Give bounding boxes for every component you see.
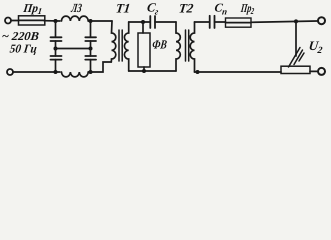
svg-text:Т1: Т1 [115,1,131,16]
inductor L1 top [62,16,89,21]
wire [11,20,18,22]
terminal input bottom [7,69,13,75]
wire (slider lead) [295,21,297,56]
capacitor C3 (lower left of filter) [51,49,62,73]
wire (bottom rail to rheostat) [195,71,282,73]
wire [13,71,60,73]
wire [143,67,145,71]
node I [196,70,200,74]
node G [141,20,145,24]
node E [54,70,58,74]
wire [310,70,317,72]
capacitor Cp [210,16,226,28]
svg-text:Т2: Т2 [178,1,195,16]
box FV (ferroresonant element) [138,33,150,67]
fuse Pr2 [226,18,252,27]
transformer T2 core [186,30,189,61]
node A [54,19,58,23]
inductor L2 bottom [62,72,89,77]
transformer T1 core [119,30,122,61]
node H [142,69,146,73]
node F [89,70,93,74]
node J [294,19,298,23]
capacitor C2 (upper right of filter) [85,21,96,49]
fuse Pr1 [19,16,45,25]
transformer T2 primary winding [176,22,180,71]
wire [195,21,210,23]
wire [142,22,144,33]
capacitor Cg [150,16,176,28]
wire [88,20,112,22]
capacitor C1 (upper left of filter) [51,21,62,49]
wire (secondary bottom rail) [129,70,176,72]
resistor R (rheostat body) [281,66,310,73]
capacitor C4 (lower right of filter) [85,49,96,73]
transformer T1 secondary winding [124,22,128,71]
node D [89,47,93,51]
wire [44,20,60,22]
svg-text:ЛЗ: ЛЗ [70,1,83,15]
node C [54,47,58,51]
wire [129,21,150,23]
terminal output top [318,17,325,24]
transformer T2 secondary winding [190,22,194,72]
wire (filter mid rail) [56,48,91,50]
terminal output bottom [318,68,325,75]
wire [88,62,111,72]
transformer T1 primary winding [111,21,116,62]
terminal input top [5,18,11,24]
slider contact (hatched arrow) [289,48,305,68]
svg-text:ФВ: ФВ [152,38,168,52]
svg-text:50 Гц: 50 Гц [9,42,38,56]
wire [251,21,317,22]
node B [89,19,93,23]
